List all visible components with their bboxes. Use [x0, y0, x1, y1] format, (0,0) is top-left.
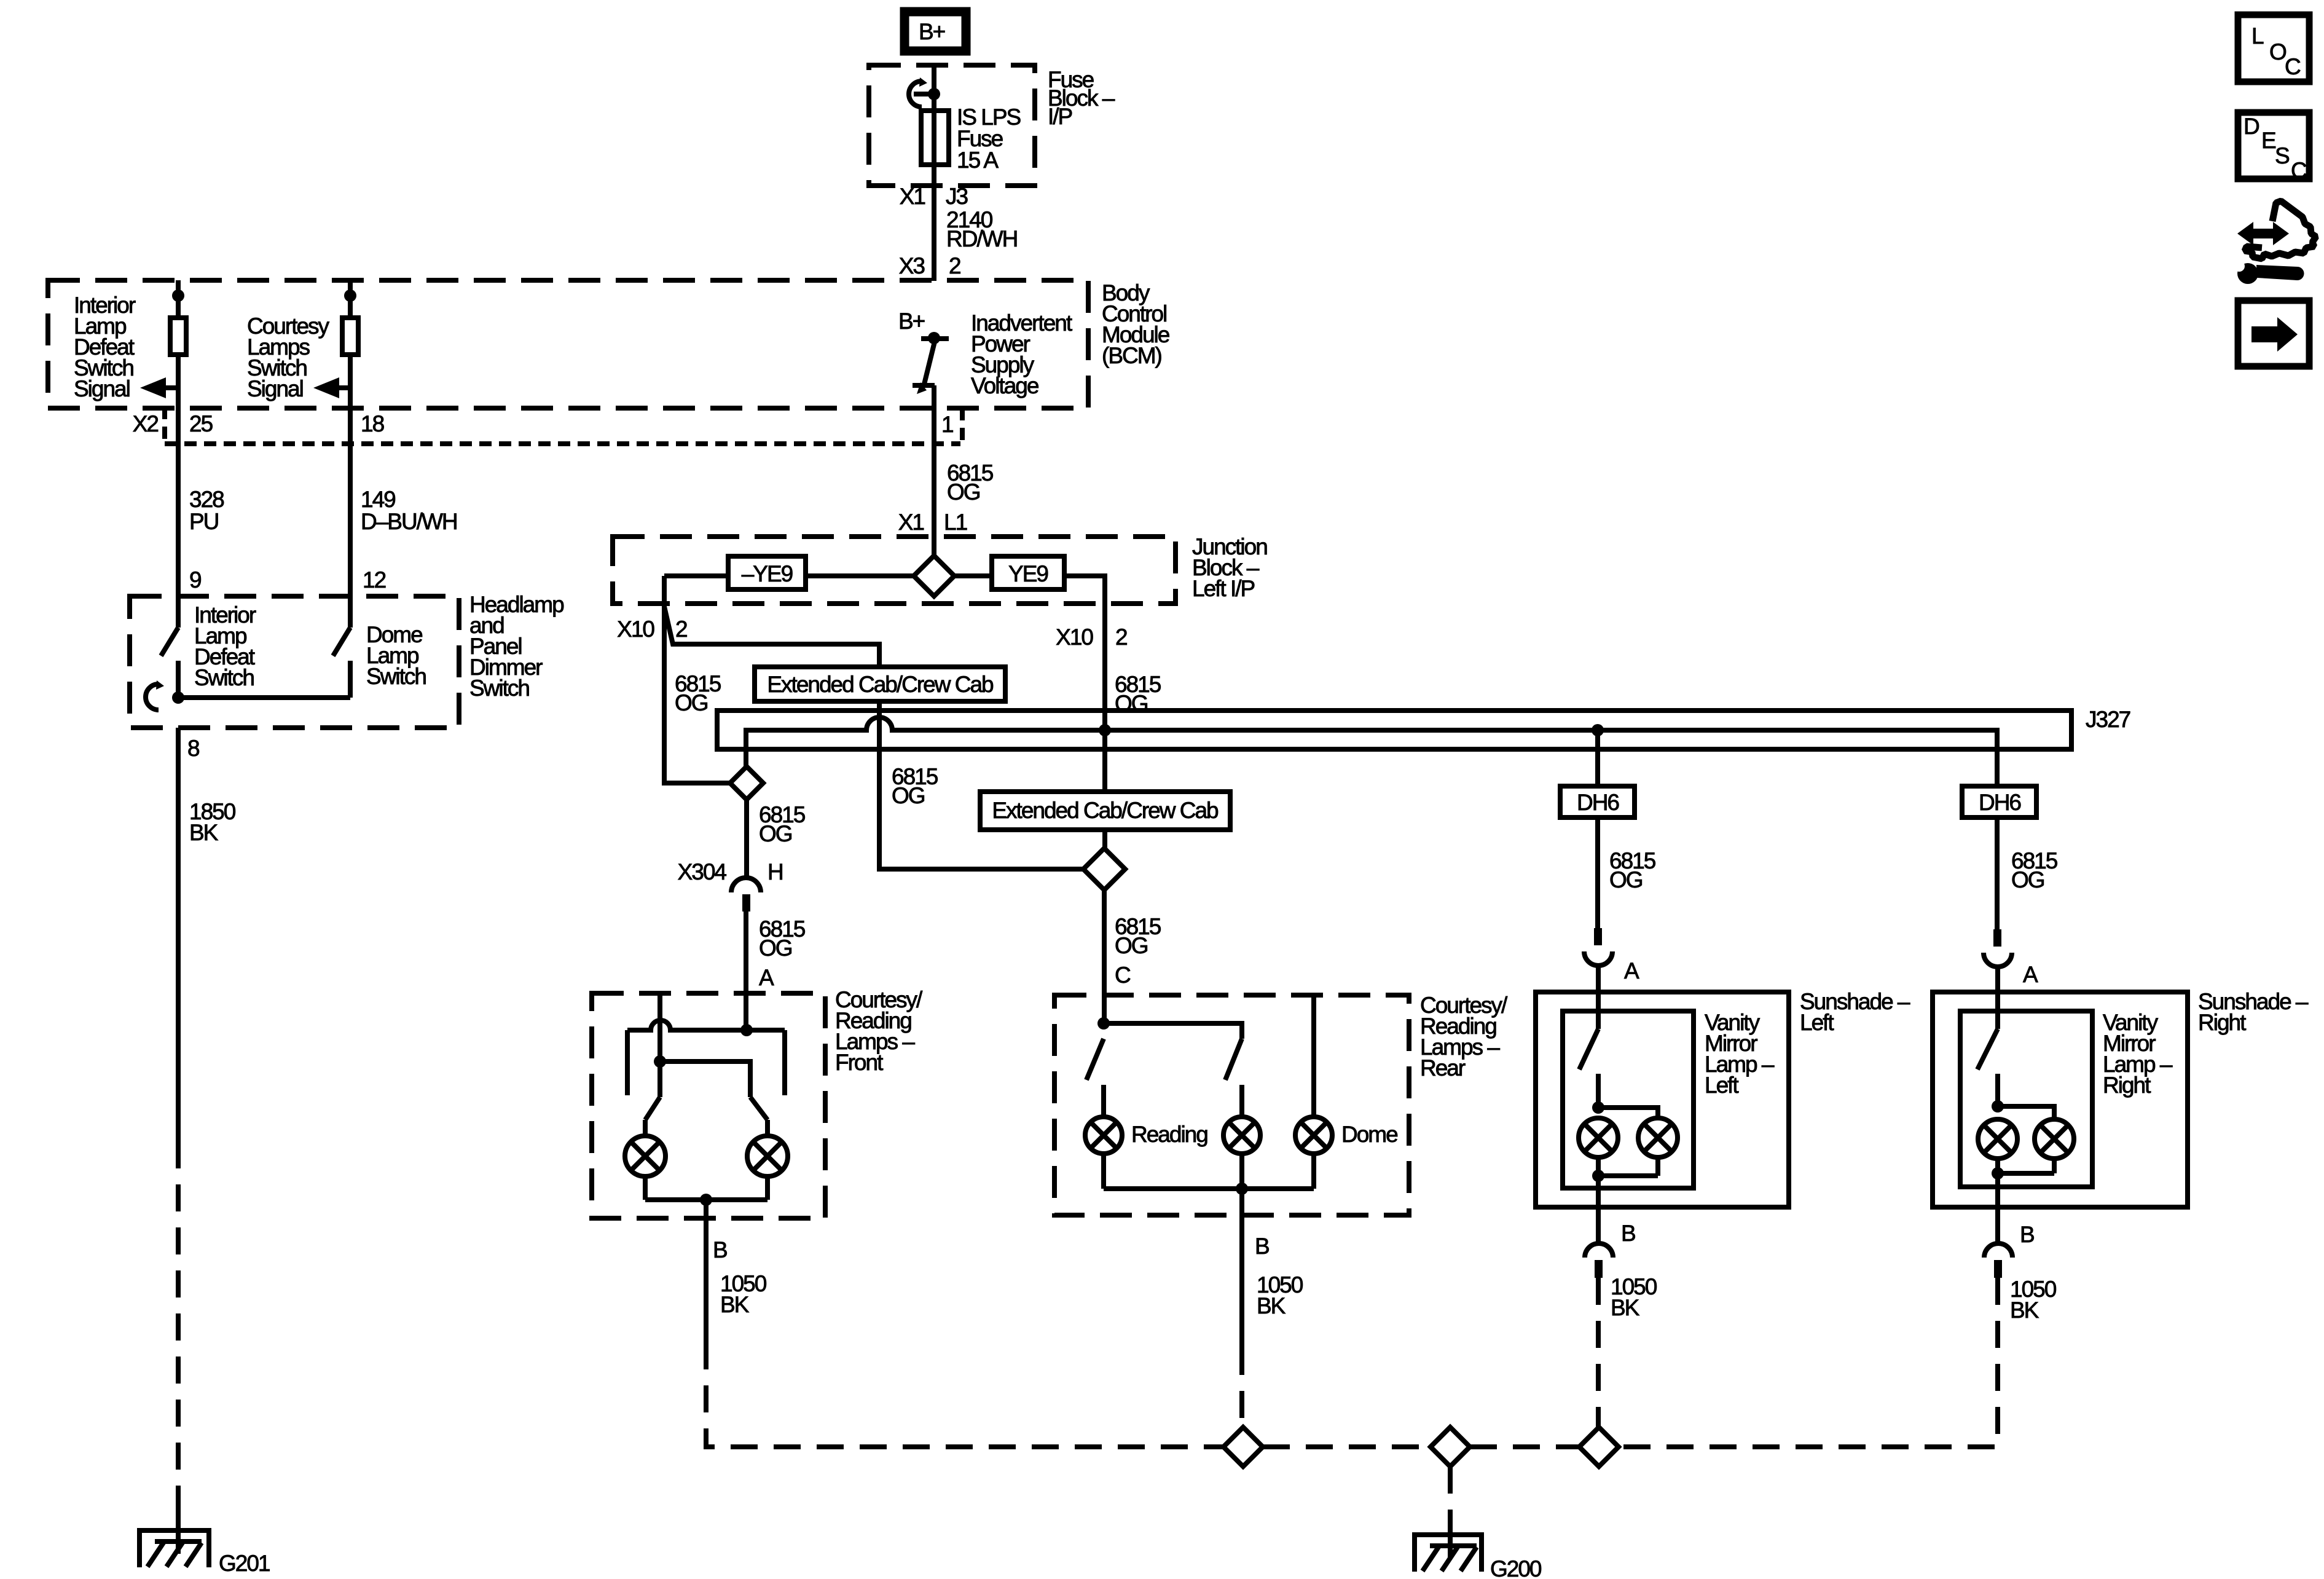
wire -YE9 branch left	[664, 573, 914, 578]
wire J327 internal bus with hop	[746, 717, 1997, 786]
svg-text:C: C	[2291, 158, 2307, 183]
wire DH6 left drop	[1595, 730, 1600, 786]
wire to rear lamps C	[1102, 890, 1107, 1023]
svg-text:C: C	[1115, 963, 1131, 988]
svg-text:Extended Cab/Crew Cab: Extended Cab/Crew Cab	[992, 798, 1219, 823]
hook clip at fuse	[909, 81, 922, 107]
svg-text:B: B	[1255, 1234, 1269, 1259]
svg-text:2: 2	[675, 616, 687, 642]
lamp front right	[765, 1120, 770, 1136]
BCM internal switch	[928, 332, 940, 344]
wire 1850 BK solid then dashed to G201	[176, 728, 181, 1141]
svg-text:X1: X1	[900, 184, 925, 209]
svg-text:E: E	[2261, 128, 2276, 153]
wire B+ to BCM	[932, 65, 936, 281]
terminal YE9	[992, 556, 1064, 589]
wire dashed bus G200 to left vanity diamond	[1470, 1444, 1579, 1449]
wire second bus	[660, 1061, 750, 1097]
fuse IS LPS 15A	[921, 111, 949, 165]
svg-text:X2: X2	[133, 411, 159, 436]
wire dashed G200 drop	[1448, 1467, 1453, 1513]
svg-text:B: B	[2020, 1222, 2034, 1247]
lamp vanity left 1	[1579, 1118, 1618, 1157]
arrow courtesy signal	[338, 385, 350, 390]
svg-text:X10: X10	[617, 616, 654, 642]
svg-text:B+: B+	[898, 309, 925, 334]
switch vanity left	[1596, 992, 1601, 1029]
node fuse feed dot	[928, 88, 940, 100]
svg-text:InteriorLampDefeatSwitchSignal: InteriorLampDefeatSwitchSignal	[74, 293, 136, 401]
svg-text:A: A	[1624, 958, 1639, 983]
lamp rear reading left	[1085, 1117, 1122, 1154]
ground G201	[176, 1509, 181, 1554]
junction block left I/P dashed box	[613, 537, 1176, 604]
connector X304 H	[744, 800, 749, 878]
sunshade left box	[1536, 992, 1789, 1207]
arrow interior signal	[165, 385, 178, 390]
svg-text:D: D	[2244, 114, 2259, 139]
wire dashed bus to G200 diamond	[1263, 1444, 1431, 1449]
splice diamond front branch	[730, 766, 763, 800]
icon arrow box	[2238, 301, 2309, 366]
svg-text:J3: J3	[946, 184, 968, 209]
svg-text:25: 25	[189, 411, 213, 436]
lamp front left	[643, 1120, 648, 1136]
switch rear middle	[1225, 1039, 1242, 1080]
wire 328 PU	[176, 407, 181, 628]
svg-text:InteriorLampDefeatSwitch: InteriorLampDefeatSwitch	[194, 602, 256, 690]
connector B sunshade left	[1585, 1243, 1613, 1258]
svg-text:S: S	[2275, 143, 2289, 168]
wire dashed right vanity B to ground bus	[1619, 1278, 1998, 1447]
svg-text:9: 9	[189, 567, 201, 593]
svg-text:12: 12	[363, 567, 386, 593]
splice diamond junction block	[914, 556, 954, 596]
splice diamond G200	[1431, 1427, 1470, 1467]
fuse block dashed box	[869, 65, 1035, 186]
junction harness J327 rectangle	[717, 711, 2071, 749]
svg-text:18: 18	[361, 411, 384, 436]
svg-text:C: C	[2285, 54, 2301, 79]
node splice to YE9 drop	[1099, 724, 1111, 736]
icon LOC box	[2238, 15, 2309, 82]
svg-text:A: A	[2023, 962, 2038, 987]
label box Extended Cab/Crew Cab second	[980, 792, 1230, 830]
svg-text:2: 2	[1115, 624, 1127, 650]
terminal -YE9	[728, 556, 806, 589]
splice diamond rear branch	[1083, 848, 1125, 890]
hook clip at defeat switch	[146, 684, 159, 710]
svg-text:Dome: Dome	[1341, 1122, 1397, 1147]
battery terminal B+	[905, 12, 966, 51]
vanity mirror lamp left box	[1563, 1011, 1694, 1188]
wire switch outputs joined	[178, 695, 350, 700]
connector B sunshade right	[1984, 1243, 2012, 1258]
svg-text:B+: B+	[919, 19, 945, 44]
svg-text:G200: G200	[1490, 1556, 1542, 1579]
ground G200	[1448, 1513, 1453, 1558]
wire YE9 branch right	[954, 576, 1105, 848]
svg-text:8: 8	[187, 736, 199, 761]
switch interior lamp defeat	[161, 628, 178, 656]
switch dome lamp	[333, 628, 350, 656]
svg-text:J327: J327	[2086, 707, 2130, 732]
headlamp and panel dimmer switch dashed box	[130, 596, 459, 728]
wire internal bus with hop front lamps	[627, 1020, 785, 1030]
svg-text:G201: G201	[219, 1551, 270, 1576]
wire rear bottom bus	[1104, 1154, 1314, 1189]
wire BCM pin1 to junction block 6815 OG	[932, 408, 936, 556]
svg-text:Extended Cab/Crew Cab: Extended Cab/Crew Cab	[767, 672, 994, 697]
svg-text:H: H	[767, 859, 783, 884]
connector stub	[960, 408, 965, 444]
wire lamp returns to B	[645, 1176, 767, 1200]
svg-text:YE9: YE9	[1008, 561, 1048, 586]
svg-text:B: B	[713, 1237, 727, 1262]
switch rear left	[1086, 1039, 1104, 1080]
switch blades front lamps	[645, 1097, 660, 1120]
connector A sunshade right	[1993, 929, 2001, 947]
node interior lamp defeat signal wire	[176, 280, 181, 407]
splice diamond rear B ground	[1223, 1427, 1263, 1467]
wire side posts	[625, 1030, 630, 1095]
svg-text:X10: X10	[1056, 624, 1093, 650]
lamp vanity right 1	[1978, 1119, 2017, 1159]
switch vanity right	[1995, 992, 2000, 1029]
sunshade right box	[1933, 992, 2188, 1207]
lamp vanity right 2	[2035, 1119, 2074, 1159]
splice diamond left vanity B	[1579, 1427, 1619, 1467]
svg-text:L: L	[2251, 23, 2264, 49]
svg-text:–YE9: –YE9	[742, 561, 793, 586]
svg-text:A: A	[759, 965, 774, 990]
svg-text:B: B	[1621, 1221, 1635, 1246]
svg-text:DH6: DH6	[1979, 790, 2020, 815]
svg-text:2: 2	[949, 253, 960, 278]
connector A sunshade left	[1594, 928, 1602, 945]
terminal DH6 right	[1962, 786, 2036, 817]
label box Extended Cab/Crew Cab first	[755, 667, 1005, 701]
node junction dot	[172, 691, 184, 704]
svg-text:Reading: Reading	[1131, 1122, 1207, 1147]
lamp vanity left 2	[1638, 1118, 1678, 1157]
svg-text:O: O	[2269, 39, 2287, 65]
lamp rear reading right	[1223, 1117, 1260, 1154]
BCM dashed box	[48, 280, 1088, 408]
vanity mirror lamp right box	[1960, 1011, 2092, 1187]
wire dashed front B to ground bus	[706, 1342, 1223, 1447]
wire rear top bus	[1104, 1023, 1242, 1039]
lamp dome	[1295, 1117, 1332, 1154]
svg-text:1: 1	[941, 412, 953, 437]
wire feed drop from box top	[658, 995, 662, 1097]
svg-text:X3: X3	[899, 253, 925, 278]
wire dashed rear B to splice	[1239, 1348, 1244, 1427]
svg-text:DH6: DH6	[1577, 790, 1619, 815]
svg-text:X1: X1	[898, 510, 924, 535]
wire dome lamp feed	[1311, 995, 1316, 1117]
courtesy reading lamps rear dashed box	[1054, 995, 1409, 1215]
node splice to DH6 left drop	[1592, 724, 1604, 736]
node courtesy lamps signal wire	[348, 280, 353, 407]
svg-text:DomeLampSwitch: DomeLampSwitch	[366, 622, 426, 689]
courtesy reading lamps front dashed box	[592, 993, 825, 1218]
icon DESC box	[2238, 112, 2309, 179]
svg-text:X304: X304	[678, 859, 727, 884]
wire 149 D-BU/WH	[348, 407, 353, 628]
icon jagged pointer outline	[2245, 201, 2316, 259]
terminal DH6 left	[1560, 786, 1635, 817]
icon wrench	[2256, 265, 2304, 280]
connector line X2	[165, 441, 960, 446]
svg-text:L1: L1	[944, 510, 967, 535]
icon double arrow	[2237, 222, 2289, 245]
wire diagonal jog to extended cab branch	[664, 607, 1083, 869]
